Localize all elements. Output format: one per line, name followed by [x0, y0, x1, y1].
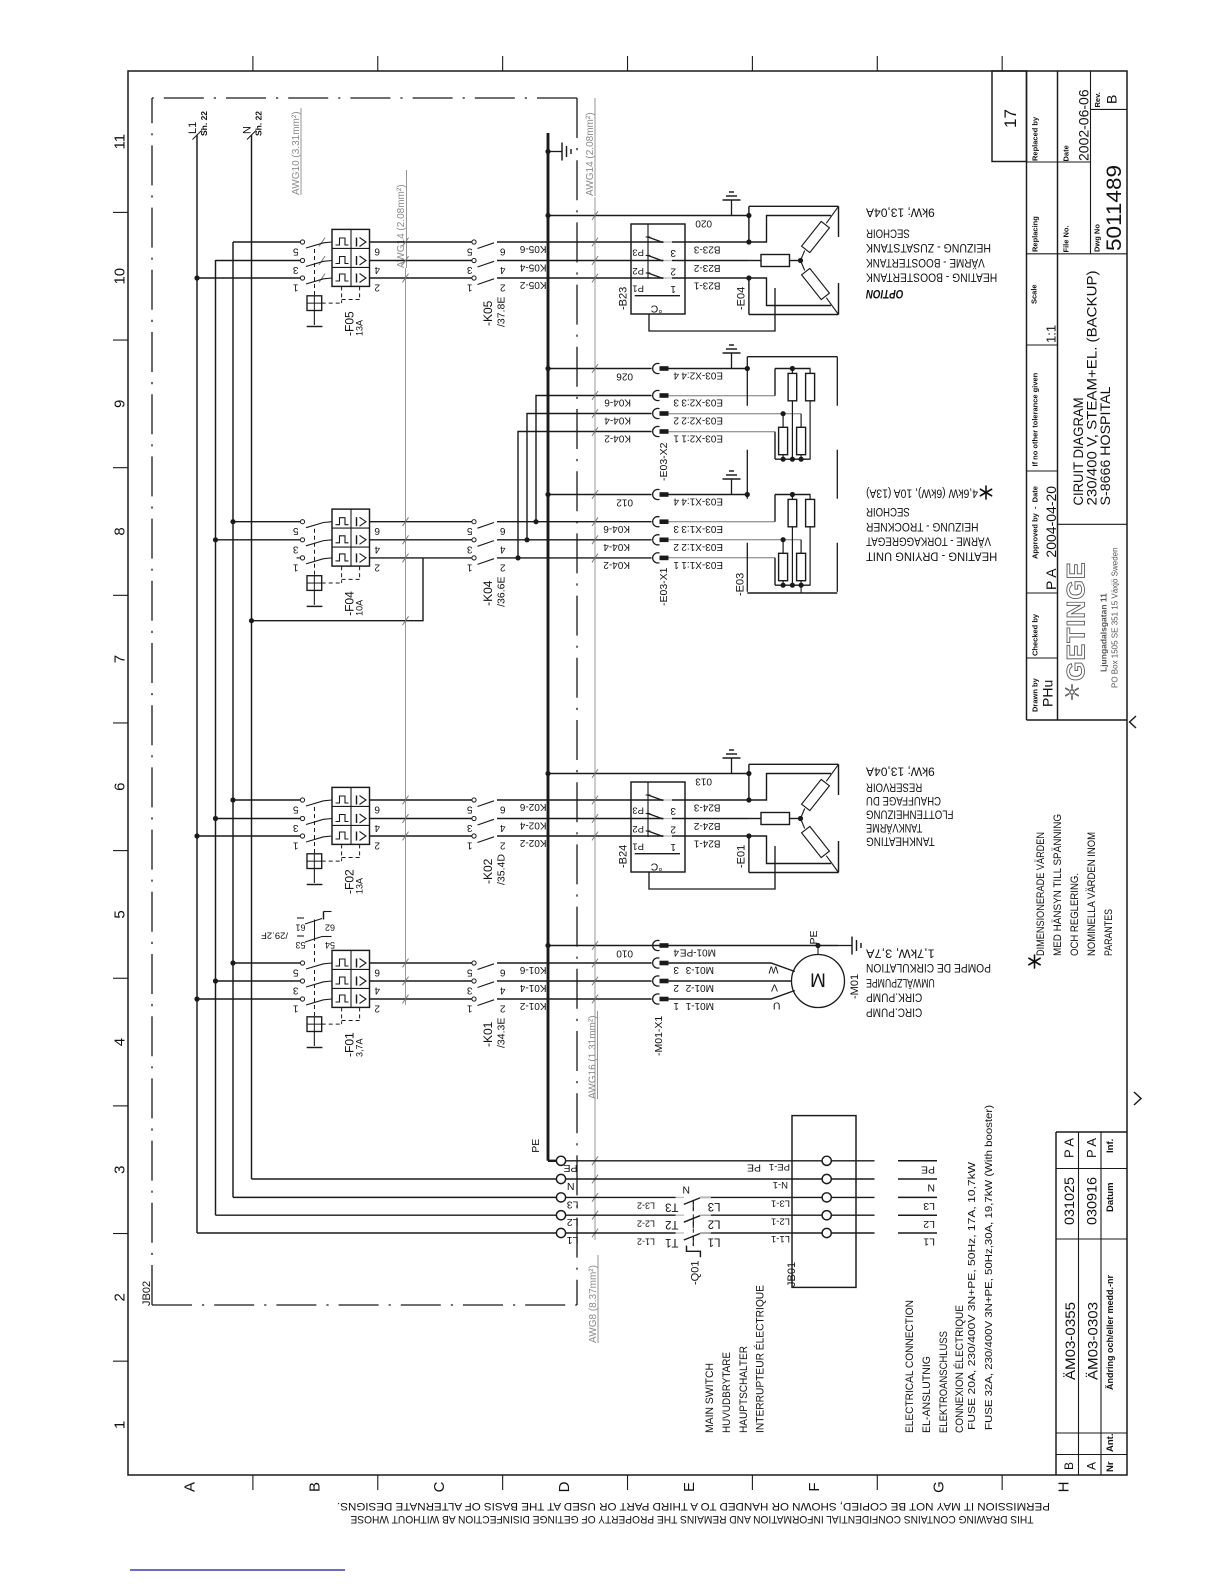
svg-text:B: B — [1104, 95, 1120, 104]
rail bends to JB02 terminals — [197, 1232, 556, 1234]
contactor -K04 contact 3-4 — [472, 538, 476, 542]
breaker -F02 test button — [307, 854, 322, 869]
svg-text:6: 6 — [500, 804, 506, 815]
wire B23 output B23-1 — [672, 277, 749, 279]
wire 020 (PE to E04) — [548, 215, 749, 217]
svg-text:3: 3 — [467, 543, 473, 554]
svg-text:PE: PE — [563, 1162, 577, 1174]
wire -F05 output row 242 — [370, 241, 472, 243]
svg-text:61: 61 — [295, 922, 305, 932]
breaker -F01 test button — [307, 1017, 322, 1032]
svg-text:F: F — [806, 1482, 823, 1491]
svg-text:1: 1 — [293, 561, 299, 572]
svg-text:Checked by: Checked by — [1031, 613, 1040, 656]
svg-text:4: 4 — [673, 370, 679, 381]
svg-text:E: E — [681, 1482, 698, 1492]
wire -F01 output row 999 — [370, 998, 472, 1000]
svg-text:1: 1 — [673, 433, 679, 444]
svg-text:4: 4 — [374, 985, 380, 996]
JB01 terminal L3 — [822, 1193, 831, 1202]
contactor -K05 contact 5-6 — [472, 276, 476, 280]
svg-text:E03-X2:1: E03-X2:1 — [681, 433, 723, 444]
breaker -F05 pole contact blade — [300, 240, 304, 244]
connector M01-X1 pin 2 — [653, 976, 660, 986]
thermostat B23 actuator bar — [647, 224, 649, 279]
staircase wires K04 outputs to E03-X2 rows — [536, 396, 652, 522]
svg-text:/29.2F: /29.2F — [261, 930, 288, 941]
wire feeder to -F04 at row 521.7 — [233, 521, 300, 523]
breaker -F02 pole 1-2 magnetic element — [356, 796, 358, 805]
svg-text:AWG14 (2.08mm²): AWG14 (2.08mm²) — [396, 184, 407, 268]
heater E01 element (upper diagonal) — [802, 779, 830, 810]
svg-text:P2: P2 — [632, 823, 644, 834]
wire feeder to -F01 at row 999 — [197, 998, 300, 1000]
svg-text:010: 010 — [616, 948, 633, 959]
svg-text:P1: P1 — [632, 283, 644, 294]
breaker -F04 pole 3-4 magnetic element — [356, 535, 358, 544]
wire K01 output to M01-X1 — [497, 980, 652, 982]
svg-text:4: 4 — [500, 264, 506, 275]
svg-text:2: 2 — [500, 282, 506, 293]
rail N sheet-continuation slash — [247, 131, 256, 140]
svg-text:ÄM03-0303: ÄM03-0303 — [1085, 1302, 1101, 1380]
svg-text:L3-2: L3-2 — [637, 1201, 655, 1211]
heater E04 phase routing (lower) — [749, 278, 831, 306]
breaker -F05 linkage (dashed) — [314, 249, 316, 296]
E03 bank upper resistors — [788, 373, 797, 400]
breaker -F04 body — [332, 509, 370, 566]
svg-text:3,7A: 3,7A — [355, 1038, 365, 1057]
svg-text:AWG10 (3.31mm²): AWG10 (3.31mm²) — [291, 111, 302, 195]
E03 bank chain verticals — [791, 527, 793, 585]
svg-text:L2: L2 — [708, 1218, 721, 1230]
PE bus (heavy vertical) — [547, 133, 550, 1161]
svg-text:4: 4 — [500, 543, 506, 554]
note DIMENSIONERADE (asterisk note) — [1035, 962, 1041, 965]
svg-text:B23-3: B23-3 — [693, 243, 720, 254]
svg-text:9kW; 13,04A: 9kW; 13,04A — [866, 765, 935, 777]
contactor -K02 contact 3-4 — [472, 816, 476, 820]
wire feeder to -F02 at row 800 — [233, 799, 300, 801]
wire K05 output to B23 — [497, 260, 664, 262]
svg-text:U: U — [773, 999, 781, 1011]
svg-text:6: 6 — [500, 967, 506, 978]
breaker -F02 body — [332, 787, 370, 844]
svg-text:5: 5 — [467, 804, 473, 815]
svg-text:C: C — [431, 1481, 448, 1492]
E03 resistor bank top rail — [775, 494, 811, 496]
breaker -F04 pole 5-6 thermal element — [336, 554, 349, 561]
svg-text:5: 5 — [293, 525, 299, 536]
connector E03-X1 pin 1 — [653, 553, 660, 563]
wire -F02 output row 800 — [370, 799, 472, 801]
svg-text:P1: P1 — [632, 841, 644, 852]
svg-text:B23-2: B23-2 — [693, 262, 720, 273]
svg-text:MED HÄNSYN TILL SPÄNNING: MED HÄNSYN TILL SPÄNNING — [1052, 814, 1064, 956]
wire K01 output to M01-X1 — [497, 998, 652, 1000]
svg-text:-M01-X1: -M01-X1 — [653, 1016, 665, 1056]
breaker -F04 linkage (dashed) — [314, 529, 316, 576]
svg-text:Ljungadalsgatan 11: Ljungadalsgatan 11 — [1099, 593, 1109, 672]
svg-text:S-8666 HOSPITAL: S-8666 HOSPITAL — [1097, 386, 1113, 505]
svg-text:013: 013 — [695, 776, 712, 787]
svg-text:5: 5 — [467, 967, 473, 978]
svg-text:Ändring och/eller medd.-nr: Ändring och/eller medd.-nr — [1105, 1274, 1115, 1390]
JB02 terminal L1 — [556, 1228, 565, 1237]
svg-text:020: 020 — [695, 218, 712, 229]
fold mark chevron lower — [1134, 1092, 1141, 1105]
connector E03-X2 pin 1 — [653, 426, 660, 436]
scan artifact blue line bottom left — [130, 1569, 345, 1571]
svg-text:2: 2 — [374, 840, 380, 851]
connector E03-X2 pin 4 — [653, 363, 660, 373]
svg-text:VÄRME - TORKAGGREGAT: VÄRME - TORKAGGREGAT — [866, 535, 991, 547]
supply cable stub L3 — [898, 1196, 937, 1198]
svg-text:9: 9 — [112, 400, 129, 408]
svg-text:/34.3E: /34.3E — [496, 1018, 508, 1048]
svg-text:P2: P2 — [632, 265, 644, 276]
svg-text:5: 5 — [293, 967, 299, 978]
breaker -F05 pole 3-4 thermal element — [336, 257, 349, 264]
wires JB02 terminals to Q01 / JB01 — [566, 1160, 823, 1162]
svg-text:K05-4: K05-4 — [519, 262, 546, 273]
Q01 handle — [687, 1246, 701, 1258]
wire feeder to -F01 at row 963 — [233, 962, 300, 964]
breaker -F01 body — [332, 950, 370, 1007]
E03 bank lower resistors — [779, 553, 788, 580]
svg-text:13A: 13A — [355, 878, 365, 894]
breaker -F01 pole 1-2 thermal element — [336, 959, 349, 966]
PE bus bend to JB02 terminal — [548, 1160, 556, 1162]
ground symbol at E04 PE wire — [731, 200, 733, 216]
svg-text:K02-4: K02-4 — [519, 820, 546, 831]
heater E04 element (middle) — [761, 255, 790, 267]
wire-gauge boundary line AWG14 (x=405) — [405, 268, 407, 1005]
svg-text:L1-1: L1-1 — [771, 1233, 790, 1244]
svg-text:P A: P A — [1084, 1138, 1099, 1158]
svg-text:17: 17 — [1001, 109, 1020, 128]
thermostat B24 actuator bar — [647, 782, 649, 837]
connector M01-X1 pin 1 — [653, 994, 660, 1004]
wire-gauge boundary line (x=595) — [594, 197, 596, 1240]
svg-text:1: 1 — [467, 561, 473, 572]
svg-text:Dwg No: Dwg No — [1093, 224, 1102, 252]
connector M01-X1 pin 4 — [653, 940, 660, 950]
wire JB01 L3 to supply side — [831, 1196, 874, 1198]
connector E03-X2 pin 2 — [653, 408, 660, 418]
breaker -F01 pole 5-6 thermal element — [336, 995, 349, 1002]
wire JB01 N to supply side — [831, 1178, 874, 1180]
svg-text:K04-4: K04-4 — [603, 541, 630, 552]
heater E01 phase routing (lower) — [749, 836, 831, 864]
svg-text:4: 4 — [112, 1038, 129, 1046]
svg-text:L1: L1 — [187, 122, 199, 134]
svg-text:SECHOIR: SECHOIR — [866, 505, 910, 517]
svg-text:D: D — [556, 1481, 573, 1492]
svg-text:K04-2: K04-2 — [603, 559, 630, 570]
junction box JB01 — [792, 1116, 856, 1288]
GETINGE logo flower symbol — [1072, 692, 1078, 696]
svg-text:E03-X2:2: E03-X2:2 — [681, 415, 723, 426]
svg-text:-K01: -K01 — [481, 1021, 495, 1047]
breaker -F04 pole 1-2 thermal element — [336, 518, 349, 525]
rail L2 (vertical bus) — [215, 260, 217, 1215]
svg-text:-K05: -K05 — [481, 300, 495, 326]
svg-text:Replaced by: Replaced by — [1031, 116, 1040, 161]
contactor -K05 contact 1-2 — [472, 240, 476, 244]
svg-text:6: 6 — [374, 525, 380, 536]
ground symbol at E03-X2:4 — [731, 353, 733, 369]
wire -F01 output row 963 — [370, 962, 472, 964]
svg-text:3: 3 — [673, 397, 679, 408]
svg-text:K01-4: K01-4 — [519, 982, 546, 993]
connector E03-X1 pin 3 — [653, 517, 660, 527]
svg-text:-M01: -M01 — [849, 974, 861, 999]
supply cable stub PE — [898, 1160, 937, 1162]
svg-text:2: 2 — [673, 415, 679, 426]
svg-text:Date: Date — [1062, 145, 1071, 161]
connector E03-X1 pin 2 — [653, 535, 660, 545]
breaker -F05 pole contact blade — [300, 258, 304, 262]
wire JB01 PE to supply side — [831, 1160, 874, 1162]
wire K02 output to B24 — [497, 835, 664, 837]
wire -F02 output row 836 — [370, 835, 472, 837]
svg-text:4: 4 — [374, 264, 380, 275]
svg-text:Datum: Datum — [1105, 1182, 1116, 1212]
svg-text:PE: PE — [747, 1161, 761, 1173]
JB02 terminal L2 — [556, 1211, 565, 1220]
svg-text:-E03: -E03 — [735, 573, 747, 596]
wire feeder to -F04 at row 539.8 — [216, 539, 301, 541]
F01 auxiliary contact 53-54 — [297, 935, 304, 937]
heater E04 phase routing (upper) — [749, 216, 831, 243]
svg-text:T3: T3 — [665, 1200, 678, 1212]
wire K05 output to B23 — [497, 277, 664, 279]
E03 bank bottom rail — [775, 458, 811, 460]
thermostat B23 box — [631, 224, 685, 314]
contactor -K04 contact 5-6 — [472, 556, 476, 560]
Q01 contact gap shading — [676, 1196, 684, 1198]
wire K05 output to B23 — [497, 241, 664, 243]
svg-text:ELECTRICAL CONNECTION: ELECTRICAL CONNECTION — [904, 1300, 916, 1433]
ground symbol at E01 PE wire — [731, 758, 733, 774]
svg-text:PE: PE — [808, 930, 820, 944]
contactor -K01 contact 5-6 — [472, 997, 476, 1001]
thermostat B24 contact P1 — [648, 831, 663, 837]
svg-text:Drawn by: Drawn by — [1031, 677, 1040, 712]
E03 bank feeder corner (lower phase) — [774, 432, 776, 460]
svg-text:1: 1 — [293, 840, 299, 851]
wire -F04 output row 539.8 — [370, 539, 472, 541]
JB02 enclosure boundary (dash-dot) — [151, 98, 153, 1305]
Q01 contact pole T3 — [684, 1198, 700, 1205]
svg-text:HEIZUNG - TROCKNER: HEIZUNG - TROCKNER — [866, 520, 979, 532]
svg-text:Ant.: Ant. — [1105, 1434, 1116, 1452]
svg-text:L1: L1 — [708, 1236, 721, 1248]
breaker -F04 pole 1-2 magnetic element — [356, 517, 358, 526]
svg-text:1: 1 — [293, 1003, 299, 1014]
svg-text:B24-1: B24-1 — [693, 837, 720, 848]
breaker -F02 pole 1-2 thermal element — [336, 796, 349, 803]
breaker -F04 operator stem and bar — [313, 590, 315, 605]
svg-text:FUSE 32A, 230/400V 3N+PE, 50Hz: FUSE 32A, 230/400V 3N+PE, 50Hz,30A, 19,7… — [983, 1105, 995, 1430]
svg-text:3: 3 — [673, 964, 679, 975]
svg-text:031025: 031025 — [1062, 1177, 1077, 1225]
heater E04 enclosure — [749, 205, 839, 207]
E03 resistor bank top rail — [775, 368, 811, 370]
svg-text:PE-1: PE-1 — [769, 1161, 790, 1172]
svg-text:HUVUDBRYTARE: HUVUDBRYTARE — [721, 1352, 733, 1433]
breaker -F02 linkage (dashed) — [314, 807, 316, 854]
wire 010 (PE to motor) — [548, 945, 838, 947]
title block header cell dividers — [1027, 161, 1058, 163]
thermostat B24 internal divider — [635, 853, 680, 855]
svg-text:1:1: 1:1 — [1044, 325, 1059, 343]
breaker -F04 test button — [307, 576, 322, 591]
svg-text:L2: L2 — [923, 1218, 935, 1230]
svg-text:N: N — [927, 1182, 935, 1194]
JB01 terminal PE — [822, 1156, 831, 1165]
motor phase wires U V W — [669, 963, 795, 972]
svg-text:K04-4: K04-4 — [604, 415, 631, 426]
svg-text:4: 4 — [374, 543, 380, 554]
svg-text:CHAUFFAGE DU: CHAUFFAGE DU — [866, 794, 941, 806]
breaker -F04 pole contact blade — [300, 556, 304, 560]
svg-text:VÄRME - BOOSTERTANK: VÄRME - BOOSTERTANK — [866, 256, 985, 268]
svg-text:K01-2: K01-2 — [519, 1000, 546, 1011]
wire K01 output to M01-X1 — [497, 962, 652, 964]
svg-text:AWG14 (2.08mm²): AWG14 (2.08mm²) — [585, 112, 596, 196]
E03 bank feeder corner (upper phase) — [774, 495, 776, 522]
F01 aux contacts linkage — [314, 920, 316, 938]
svg-text:K02-2: K02-2 — [519, 837, 546, 848]
rail N (vertical bus) — [251, 135, 253, 1179]
svg-text:Nr: Nr — [1105, 1461, 1116, 1472]
svg-text:6: 6 — [112, 783, 129, 791]
svg-text:1: 1 — [673, 559, 679, 570]
svg-text:6: 6 — [500, 246, 506, 257]
svg-text:10: 10 — [112, 268, 129, 285]
svg-text:3: 3 — [293, 985, 299, 996]
wire JB01 L2 to supply side — [831, 1214, 874, 1216]
svg-text:M01-1: M01-1 — [685, 1000, 714, 1011]
svg-text:OCH REGLERING.: OCH REGLERING. — [1069, 873, 1081, 956]
F01 auxiliary contact 61-62 — [297, 917, 304, 919]
svg-text:2: 2 — [673, 982, 679, 993]
svg-text:CIRK.PUMP: CIRK.PUMP — [866, 991, 922, 1003]
breaker -F01 pole contact blade — [300, 961, 304, 965]
svg-text:3: 3 — [467, 822, 473, 833]
svg-text:K02-6: K02-6 — [519, 801, 546, 812]
svg-text:P A: P A — [1062, 1138, 1077, 1158]
svg-text:N: N — [567, 1180, 575, 1192]
breaker -F05 pole 1-2 magnetic element — [356, 238, 358, 247]
breaker -F04 pole contact blade — [300, 520, 304, 524]
E03 bank chain verticals — [791, 401, 793, 459]
svg-text:5: 5 — [467, 246, 473, 257]
svg-text:3: 3 — [112, 1166, 129, 1174]
svg-text:2: 2 — [374, 282, 380, 293]
rail L3 (vertical bus) — [232, 242, 234, 1197]
svg-text:6: 6 — [500, 525, 506, 536]
svg-text:JB02: JB02 — [141, 1281, 153, 1306]
svg-text:CONNEXION ÉLECTRIQUE: CONNEXION ÉLECTRIQUE — [953, 1305, 966, 1433]
svg-text:3: 3 — [293, 543, 299, 554]
svg-text:H: H — [1056, 1482, 1073, 1493]
wire JB01 L1 to supply side — [831, 1232, 874, 1234]
breaker -F02 pole 3-4 thermal element — [336, 815, 349, 822]
asterisk for E03 note — [986, 493, 992, 496]
svg-text:W: W — [769, 964, 779, 976]
svg-text:T2: T2 — [665, 1218, 678, 1230]
svg-text:Replacing: Replacing — [1031, 216, 1040, 252]
JB01 terminal L1 — [822, 1228, 831, 1237]
svg-text:ELEKTROANSCHLUSS: ELEKTROANSCHLUSS — [938, 1331, 950, 1433]
svg-text:AWG16 (1.31mm²): AWG16 (1.31mm²) — [588, 1015, 599, 1099]
svg-text:RESERVOIR: RESERVOIR — [866, 781, 922, 793]
svg-text:1: 1 — [467, 840, 473, 851]
svg-text:AWG8 (8.37mm²): AWG8 (8.37mm²) — [588, 1265, 599, 1343]
breaker -F02 pole 3-4 magnetic element — [356, 814, 358, 823]
svg-text:FLOTTENHEIZUNG: FLOTTENHEIZUNG — [866, 808, 954, 820]
connector E03-X1 pin 4 — [653, 489, 660, 499]
breaker -F05 pole contact blade — [300, 276, 304, 280]
breaker -F04 pole 3-4 thermal element — [336, 536, 349, 543]
svg-text:3: 3 — [673, 523, 679, 534]
thermostat B23 contact P2 — [648, 256, 663, 262]
svg-text:A: A — [181, 1482, 198, 1492]
svg-text:M01-3: M01-3 — [685, 964, 714, 975]
svg-text:HEATING - BOOSTERTANK: HEATING - BOOSTERTANK — [866, 271, 997, 283]
heater E01 enclosure — [749, 763, 839, 765]
svg-text:3: 3 — [293, 264, 299, 275]
heater E04 element (upper diagonal) — [802, 221, 830, 252]
svg-text:L3: L3 — [567, 1198, 579, 1210]
svg-text:P3: P3 — [632, 805, 644, 816]
svg-text:E03-X2:3: E03-X2:3 — [681, 397, 723, 408]
JB02 terminal N — [556, 1174, 565, 1183]
svg-text:If no other tolerance given: If no other tolerance given — [1031, 372, 1040, 466]
svg-text:54: 54 — [325, 940, 335, 950]
svg-text:°C: °C — [650, 860, 662, 872]
breaker -F05 pole 3-4 magnetic element — [356, 256, 358, 265]
svg-text:K04-6: K04-6 — [604, 397, 631, 408]
frame column ticks and letters (bottom margin) — [252, 1475, 254, 1490]
ground symbol at E03-X1:4 — [731, 479, 733, 495]
svg-text:PERMISSION IT MAY NOT BE COPIE: PERMISSION IT MAY NOT BE COPIED, SHOWN O… — [337, 1500, 1050, 1512]
svg-text:Approved by - Date: Approved by - Date — [1031, 486, 1040, 559]
thermostat B23 contact P1 — [648, 273, 663, 279]
breaker -F01 pole 3-4 magnetic element — [356, 977, 358, 986]
connector M01-X1 pin 3 — [653, 958, 660, 968]
heater E01 PE connection dot — [746, 771, 751, 776]
svg-text:POMPE DE CIRKULATION: POMPE DE CIRKULATION — [866, 961, 991, 973]
Q01 contact pole T1 — [684, 1234, 700, 1241]
breaker -F05 pole 1-2 thermal element — [336, 238, 349, 245]
frame row ticks and numbers (left margin) — [113, 211, 128, 213]
svg-text:K05-6: K05-6 — [519, 243, 546, 254]
svg-text:°C: °C — [650, 302, 662, 314]
thermostat B24 contact P3 — [648, 795, 663, 801]
svg-text:5: 5 — [467, 525, 473, 536]
svg-text:E03-X1:3: E03-X1:3 — [681, 523, 723, 534]
breaker -F05 test button — [307, 296, 322, 311]
svg-text:1: 1 — [670, 841, 676, 852]
JB01 terminal L2 — [822, 1211, 831, 1220]
thermostat B24 capillary line to heater — [649, 846, 775, 889]
svg-text:Rev.: Rev. — [1093, 92, 1102, 107]
svg-text:2: 2 — [500, 840, 506, 851]
